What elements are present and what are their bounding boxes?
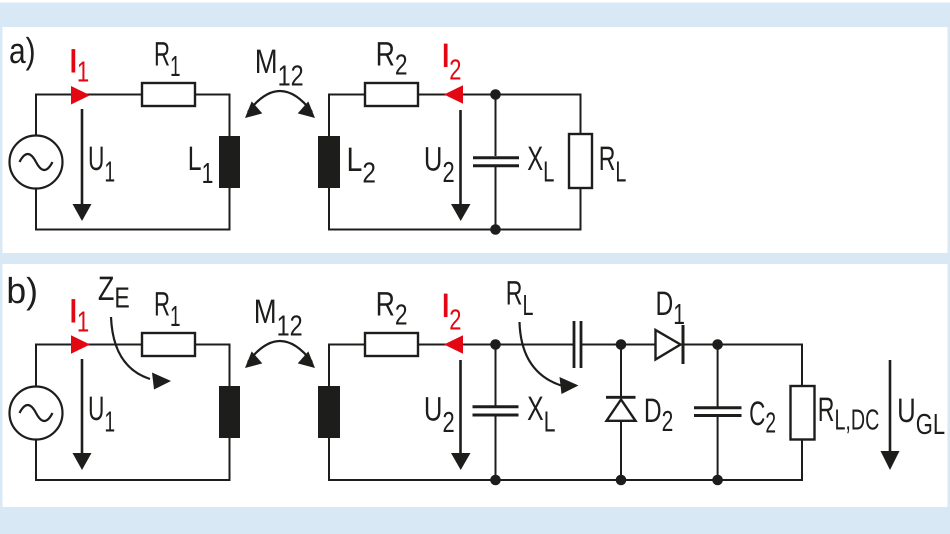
capacitor XL b <box>473 345 519 481</box>
node right bottom b <box>712 475 723 486</box>
node bottom a <box>490 224 501 235</box>
node top left b <box>490 339 501 350</box>
ac source V1 a <box>10 136 63 189</box>
node mid top b <box>616 339 627 350</box>
resistor RL a <box>569 134 592 188</box>
coupling arc M12 b <box>245 341 315 368</box>
node mid bottom b <box>616 475 627 486</box>
voltage arrow U1 b <box>73 359 92 470</box>
inductor L2 b <box>318 386 340 438</box>
pointer arrow RL b <box>520 322 579 394</box>
coupling arc M12 a <box>245 91 315 118</box>
capacitor XL a <box>473 95 519 230</box>
svg-text:a): a) <box>9 30 36 71</box>
current arrow I1 b <box>71 335 90 354</box>
panel a background <box>3 27 948 253</box>
resistor R2 b <box>365 333 418 356</box>
capacitor C2 b <box>694 345 742 481</box>
diode D1 b <box>656 325 684 364</box>
resistor R1 b <box>142 333 195 356</box>
resistor R1 a <box>142 83 195 106</box>
node top a <box>490 89 501 100</box>
svg-text:b): b) <box>6 270 38 311</box>
inductor L2 a <box>318 136 340 188</box>
ac source V1 b <box>10 387 63 440</box>
wire loop1 a <box>36 95 230 230</box>
current arrow I2 a <box>444 85 463 104</box>
inductor L1 a <box>219 136 240 188</box>
voltage arrow U1 a <box>73 109 92 221</box>
inductor L1 b <box>219 386 240 438</box>
voltage arrow UGL b <box>881 360 900 470</box>
node bottom left b <box>490 475 501 486</box>
panel b background <box>3 264 948 507</box>
capacitor series b <box>574 321 581 368</box>
diode D2 b <box>606 345 636 481</box>
resistor R2 a <box>365 83 418 106</box>
wire loop2 b bottom <box>329 438 802 480</box>
wire loop1 b <box>36 345 230 481</box>
current arrow I1 a <box>71 86 90 105</box>
pointer arrow ZE b <box>111 317 171 390</box>
voltage arrow U2 a <box>451 110 471 221</box>
wire loop2 b top <box>329 345 802 387</box>
wire loop2 a <box>329 95 581 230</box>
current arrow I2 b <box>444 335 463 354</box>
voltage arrow U2 b <box>451 360 471 470</box>
node right top b <box>712 339 723 350</box>
resistor RLDC b <box>791 386 815 440</box>
